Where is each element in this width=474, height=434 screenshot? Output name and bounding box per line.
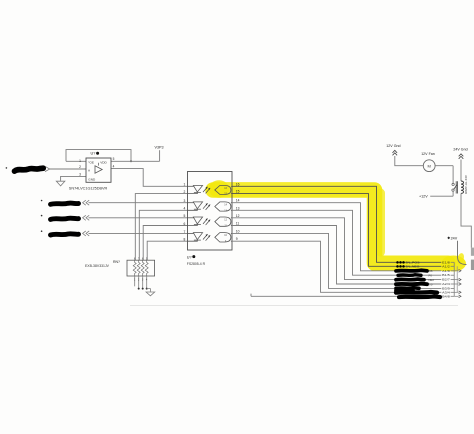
svg-text:EXB-38V331JV: EXB-38V331JV xyxy=(85,264,110,268)
svg-text:FS2805-4 R: FS2805-4 R xyxy=(187,262,206,266)
svg-text:1: 1 xyxy=(184,183,186,187)
svg-text:10: 10 xyxy=(236,229,240,233)
svg-text:*OE: *OE xyxy=(88,160,94,164)
svg-text:V3P3: V3P3 xyxy=(155,146,164,150)
svg-text:A1/2: A1/2 xyxy=(442,264,450,268)
svg-text:12: 12 xyxy=(236,214,240,218)
svg-text:SN74LVC1G125DBVR: SN74LVC1G125DBVR xyxy=(69,187,108,191)
svg-text:VDD: VDD xyxy=(100,160,107,164)
svg-text:/05: /05 xyxy=(429,269,433,273)
svg-text:3: 3 xyxy=(184,199,186,203)
svg-text:13: 13 xyxy=(236,206,240,210)
svg-text:24V: 24V xyxy=(451,237,458,241)
svg-text:R82P-UL 24V: R82P-UL 24V xyxy=(464,174,468,194)
svg-text:U?: U? xyxy=(187,255,192,259)
svg-text:24V Gnd: 24V Gnd xyxy=(453,147,467,151)
svg-text:15: 15 xyxy=(236,190,240,194)
svg-text:A1/9: A1/9 xyxy=(442,269,450,273)
svg-text:12V Fan: 12V Fan xyxy=(421,152,435,156)
svg-text:B1/5: B1/5 xyxy=(442,273,450,277)
svg-text:2: 2 xyxy=(184,190,186,194)
svg-text:3N_NEG: 3N_NEG xyxy=(406,265,421,269)
svg-text:14: 14 xyxy=(236,199,240,203)
svg-text:7: 7 xyxy=(184,230,186,234)
svg-text:8: 8 xyxy=(184,238,186,242)
svg-text:A2/4: A2/4 xyxy=(442,282,450,286)
svg-text:6: 6 xyxy=(184,222,186,226)
svg-text:4: 4 xyxy=(113,164,115,168)
svg-text:B4/8: B4/8 xyxy=(442,294,450,298)
svg-text:12V Gnd: 12V Gnd xyxy=(386,144,400,148)
svg-text:11: 11 xyxy=(236,222,240,226)
svg-text:U?: U? xyxy=(91,152,96,156)
svg-text:GND: GND xyxy=(88,178,96,182)
svg-text:3: 3 xyxy=(79,172,81,176)
svg-text:9: 9 xyxy=(236,237,238,241)
svg-text:B2/7: B2/7 xyxy=(442,278,450,282)
svg-text:1: 1 xyxy=(79,159,81,163)
svg-text:2: 2 xyxy=(79,165,81,169)
svg-text:5: 5 xyxy=(184,214,186,218)
svg-text:7/0: 7/0 xyxy=(429,282,433,286)
svg-text:4: 4 xyxy=(184,207,186,211)
svg-text:P0: P0 xyxy=(429,273,433,277)
svg-text:RN?: RN? xyxy=(113,260,120,264)
svg-text:16: 16 xyxy=(236,182,240,186)
svg-text:M: M xyxy=(428,163,431,168)
svg-text:NE2: NE2 xyxy=(429,278,435,282)
svg-text:+12V: +12V xyxy=(419,195,428,199)
svg-text:5: 5 xyxy=(113,157,115,161)
